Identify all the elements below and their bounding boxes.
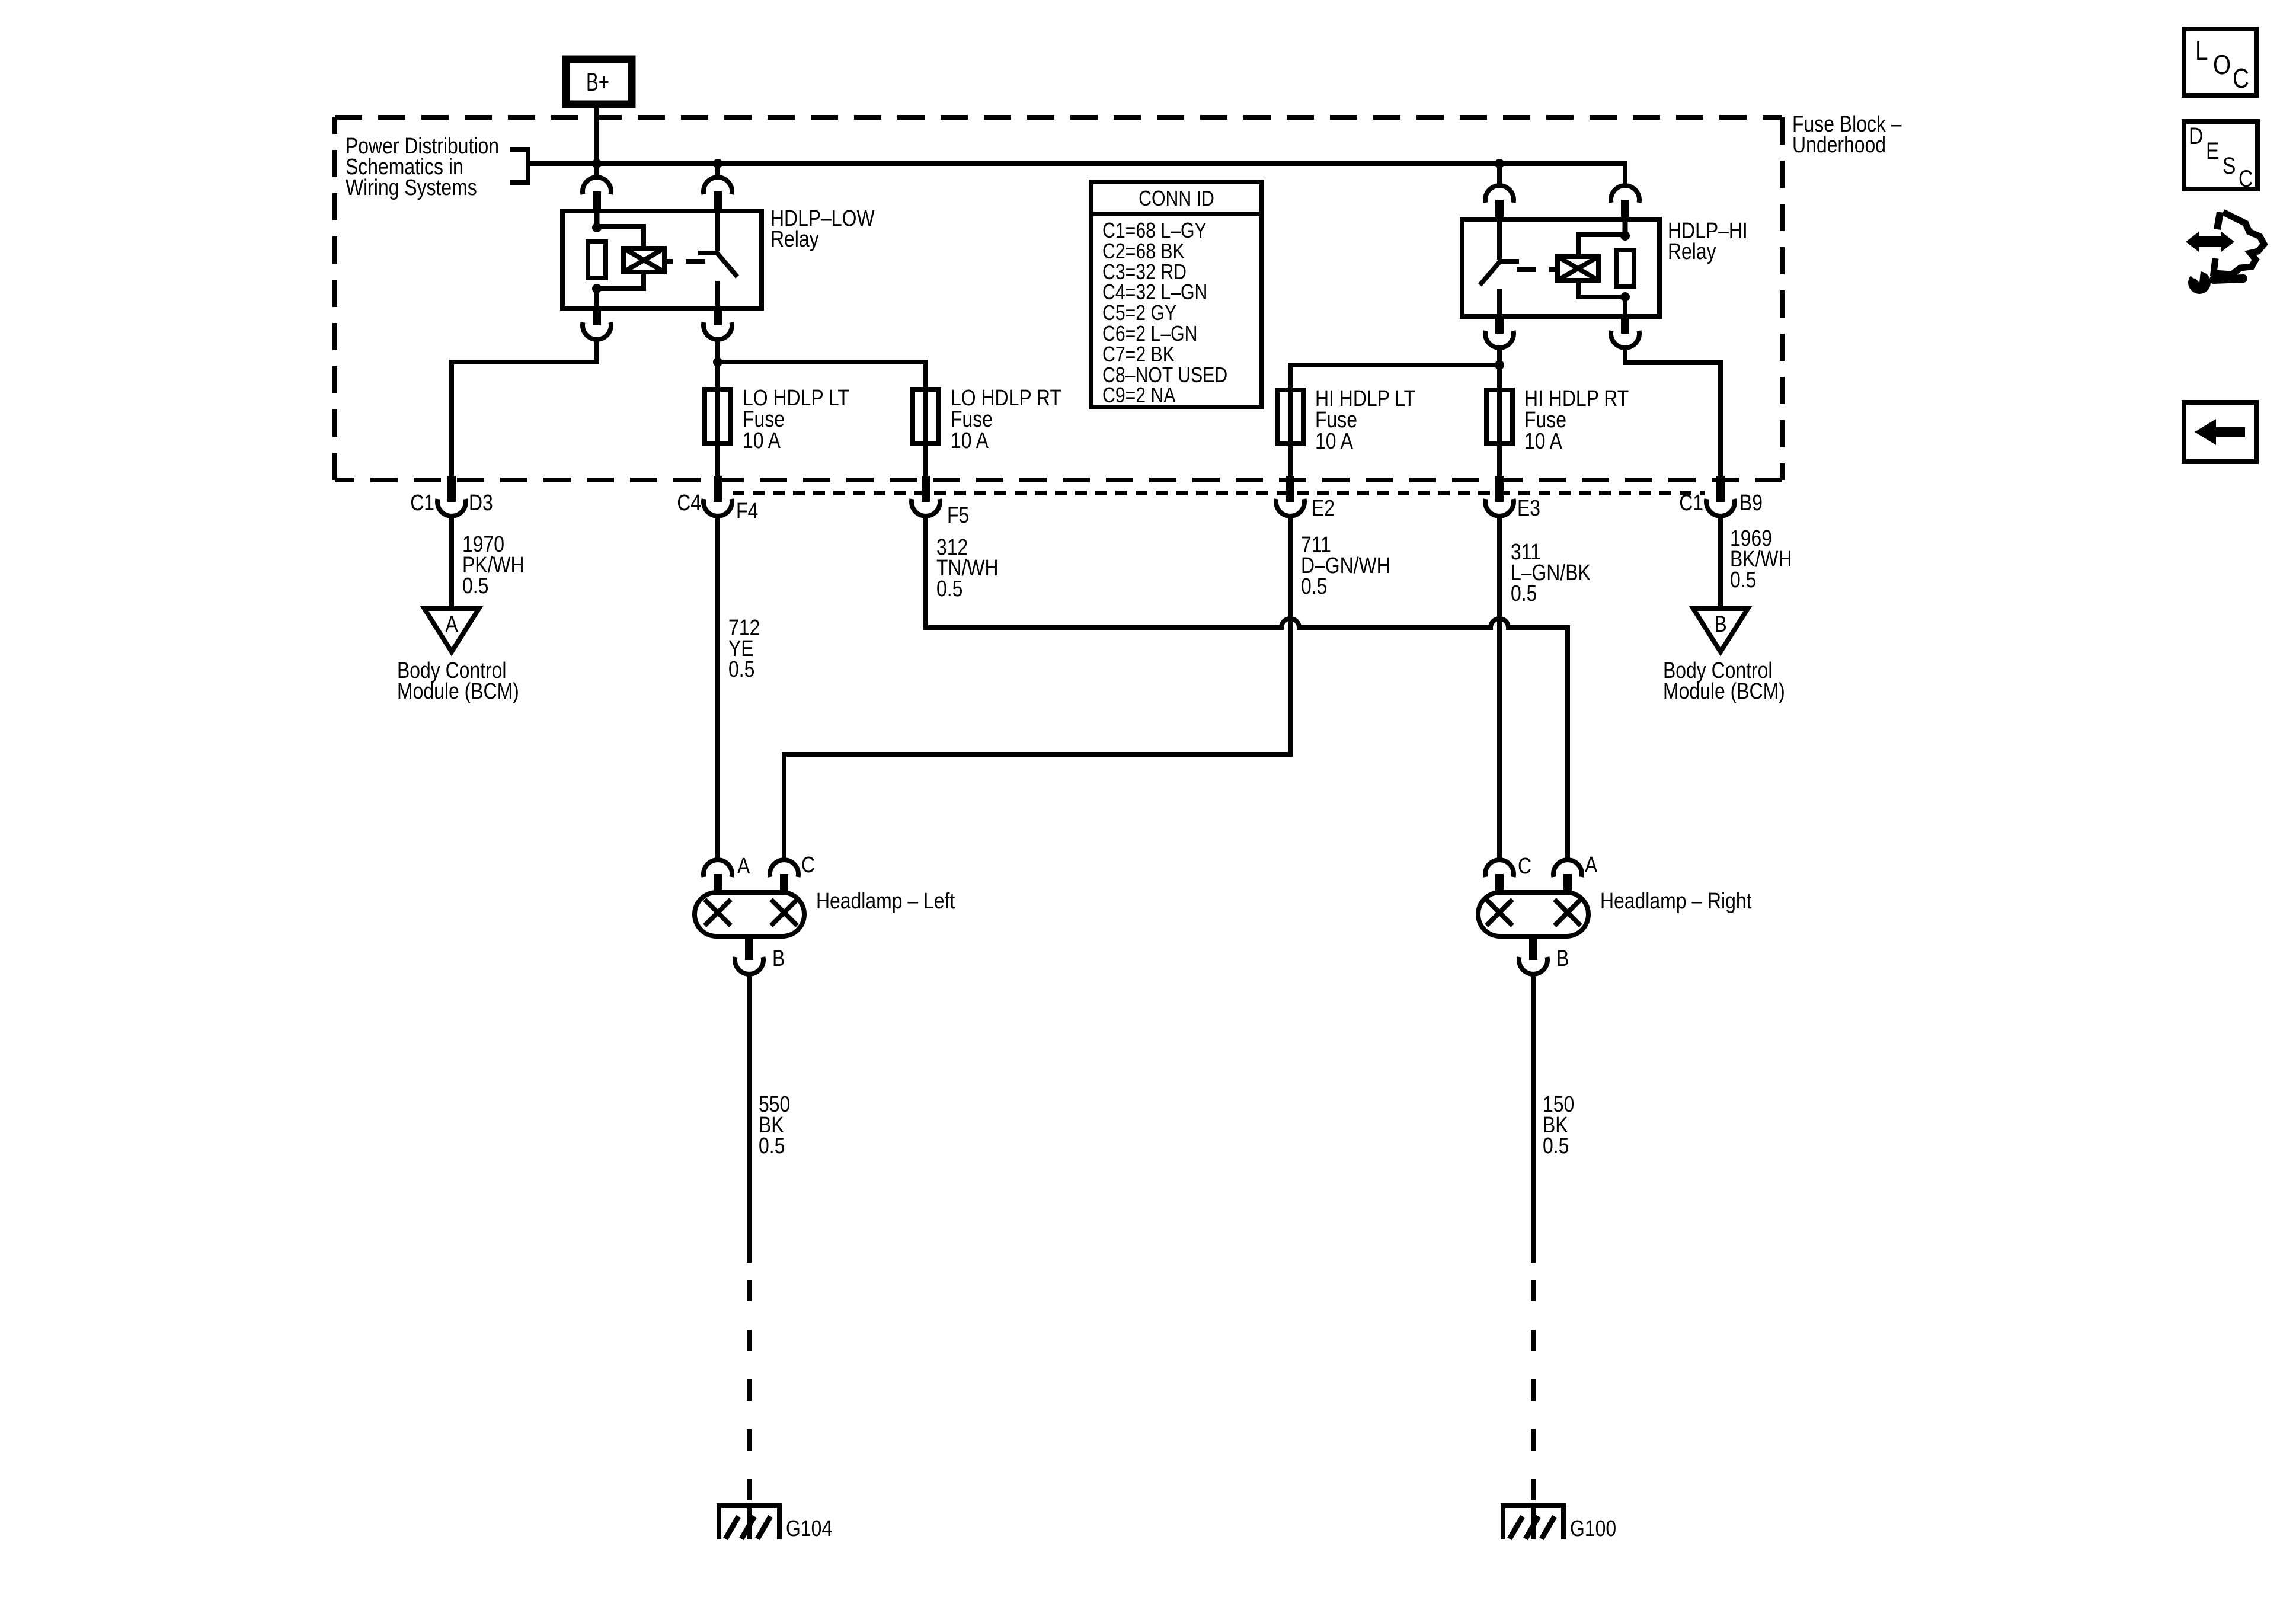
icon LOC box xyxy=(2184,29,2256,95)
terminal stub LO coil bottom xyxy=(593,308,601,325)
connector E3 xyxy=(1485,476,1540,521)
terminal stub LO switch bottom xyxy=(714,308,722,325)
svg-text:10 A: 10 A xyxy=(951,428,989,453)
wire LO RT fuse to F5 xyxy=(923,443,928,476)
B+ battery terminal box xyxy=(566,59,632,104)
wire B+ to bus xyxy=(594,104,599,164)
connector C1 B9 xyxy=(1679,476,1763,516)
node LO fuse junction xyxy=(713,357,722,367)
svg-text:E2: E2 xyxy=(1312,496,1335,521)
connector cup LO relay pin 86 top xyxy=(583,177,611,194)
right headlamp pin A connector xyxy=(1553,853,1598,895)
wire 712 YE F4 to left headlamp A xyxy=(715,516,720,860)
svg-text:Module (BCM): Module (BCM) xyxy=(1663,679,1785,704)
wire 550 BK solid xyxy=(747,974,752,1263)
wire HI RT fuse to E3 xyxy=(1497,444,1502,476)
connector cup LO relay pin 30 top xyxy=(703,177,732,194)
svg-text:0.5: 0.5 xyxy=(1301,574,1327,599)
connector cup HI relay pin 30 top xyxy=(1485,185,1514,203)
svg-text:Module (BCM): Module (BCM) xyxy=(397,679,519,704)
svg-text:10 A: 10 A xyxy=(1315,429,1353,454)
connector cup HI switch bottom xyxy=(1485,331,1514,348)
left headlamp high beam lamp xyxy=(771,900,797,926)
svg-text:Relay: Relay xyxy=(1668,239,1716,264)
power distribution bracket xyxy=(510,149,528,183)
relay HDLP-LOW box xyxy=(562,211,762,308)
wire 312 TN/WH F5 to right headlamp A xyxy=(926,516,1568,860)
connector E2 xyxy=(1276,476,1335,521)
connector F5 xyxy=(912,476,969,528)
svg-text:B: B xyxy=(1714,612,1726,637)
node HI coil top xyxy=(1620,231,1630,241)
wire junction to HI LT fuse xyxy=(1290,365,1499,390)
offpage triangle B xyxy=(1693,609,1748,652)
svg-text:C1: C1 xyxy=(410,491,434,516)
wire LO LT fuse to C4 F4 xyxy=(715,443,720,476)
ground G104 xyxy=(717,1503,782,1539)
svg-text:B+: B+ xyxy=(586,68,609,97)
svg-text:A: A xyxy=(445,612,458,637)
fuse LO HDLP RT xyxy=(913,389,939,443)
svg-text:L: L xyxy=(2195,35,2208,66)
svg-text:Headlamp – Left: Headlamp – Left xyxy=(816,889,955,914)
wire LO coil bottom to pin xyxy=(594,289,599,308)
wire bus corner to HDLP-HI coil xyxy=(1623,161,1627,186)
left headlamp pin C connector xyxy=(770,853,815,895)
svg-text:C1: C1 xyxy=(1679,491,1703,516)
svg-text:0.5: 0.5 xyxy=(1730,568,1756,593)
LO switch output contact xyxy=(715,281,720,308)
svg-text:Relay: Relay xyxy=(770,227,819,252)
HI coil pin inner stub xyxy=(1623,219,1628,236)
wire HI coil bottom to pin xyxy=(1623,297,1627,316)
node bus/LO switch xyxy=(713,159,722,168)
svg-text:0.5: 0.5 xyxy=(462,574,488,598)
fuse HI HDLP RT xyxy=(1486,390,1512,444)
svg-text:F4: F4 xyxy=(736,499,758,524)
connector cup HI coil bottom xyxy=(1611,331,1639,348)
wire bus to LO coil connector xyxy=(594,164,599,178)
icon schematic reference arrows and wrench xyxy=(2186,212,2264,294)
node HI coil bottom xyxy=(1620,292,1630,302)
LO actuator dash xyxy=(686,259,705,264)
connector cup LO switch bottom xyxy=(703,322,732,340)
svg-text:B: B xyxy=(1556,946,1569,971)
fuse block underhood dashed box xyxy=(335,117,1782,480)
svg-text:C: C xyxy=(801,853,815,878)
HI switch output contact xyxy=(1497,289,1502,316)
coil HI relay xyxy=(1558,257,1598,280)
wire 150 BK solid xyxy=(1531,974,1536,1263)
node LO coil bottom xyxy=(592,284,602,293)
svg-text:C: C xyxy=(1518,854,1531,879)
LO switch contact tick xyxy=(698,251,718,255)
wire LO coil to C1 D3 xyxy=(452,340,597,476)
HI actuator dash xyxy=(1517,267,1536,272)
left headlamp pin B connector xyxy=(735,936,785,974)
fuse LO HDLP LT xyxy=(705,389,731,443)
svg-text:A: A xyxy=(737,854,750,879)
wire 711 D-GN/WH E2 to left headlamp C xyxy=(784,516,1290,860)
terminal stub HI coil top xyxy=(1621,200,1629,222)
wire junction to LO RT fuse xyxy=(718,362,926,389)
left headlamp low beam lamp xyxy=(705,900,731,926)
connector boundary dashed line xyxy=(733,491,1705,495)
right headlamp low beam lamp xyxy=(1555,900,1581,926)
svg-text:G100: G100 xyxy=(1570,1516,1616,1541)
terminal stub HI switch bottom xyxy=(1495,316,1504,334)
HI switch common stub xyxy=(1497,219,1502,260)
terminal stub LO coil top xyxy=(593,191,601,213)
svg-text:0.5: 0.5 xyxy=(759,1134,785,1158)
LO switch common stub xyxy=(715,211,720,251)
coil LO relay xyxy=(623,248,664,272)
svg-text:Wiring Systems: Wiring Systems xyxy=(346,175,477,200)
wire 150 BK dashed xyxy=(1531,1280,1536,1503)
wire HI coil top loop xyxy=(1578,235,1625,257)
icon back arrow box xyxy=(2184,402,2256,462)
terminal stub LO switch top xyxy=(714,191,722,213)
svg-text:0.5: 0.5 xyxy=(1543,1134,1569,1158)
ground G100 xyxy=(1501,1503,1566,1539)
offpage triangle A xyxy=(424,609,479,652)
svg-text:10 A: 10 A xyxy=(1524,429,1562,454)
svg-text:0.5: 0.5 xyxy=(728,657,754,682)
wire LO coil top loop xyxy=(597,226,644,248)
svg-text:D3: D3 xyxy=(469,491,493,516)
wire 1969 to BCM B xyxy=(1718,516,1723,609)
LO switch blade xyxy=(717,252,737,277)
wire junction to LO LT fuse xyxy=(715,362,720,389)
svg-text:C: C xyxy=(2239,166,2253,192)
node bus/HI switch xyxy=(1495,159,1504,168)
connector C1 D3 xyxy=(410,476,493,516)
LO coil actuate stub xyxy=(664,259,673,264)
svg-text:F5: F5 xyxy=(947,503,969,528)
wire HI coil to C1 B9 xyxy=(1625,348,1721,476)
wire 550 BK dashed xyxy=(747,1280,752,1503)
connector cup LO coil bottom xyxy=(583,322,611,340)
node bus/B+ xyxy=(592,159,602,168)
wire HI LT fuse to E2 xyxy=(1288,444,1293,476)
svg-text:B9: B9 xyxy=(1739,491,1763,516)
fuse HI HDLP LT xyxy=(1277,390,1303,444)
svg-text:B: B xyxy=(772,946,785,971)
svg-text:Underhood: Underhood xyxy=(1792,133,1886,158)
HI switch contact tick xyxy=(1499,259,1519,264)
left headlamp pin A connector xyxy=(703,854,750,895)
HI switch blade xyxy=(1480,261,1501,285)
svg-text:10 A: 10 A xyxy=(743,428,781,453)
relay HDLP-HI box xyxy=(1462,219,1659,316)
wire bus to HI switch connector xyxy=(1497,164,1502,186)
wire junction to HI RT fuse xyxy=(1497,365,1502,390)
right headlamp high beam lamp xyxy=(1486,900,1512,926)
svg-text:O: O xyxy=(2213,49,2231,80)
svg-text:D: D xyxy=(2189,123,2203,149)
wire HI switch down xyxy=(1497,348,1502,365)
wire 311 L-GN/BK E3 to right headlamp C xyxy=(1497,516,1502,860)
wire HI coil bottom loop xyxy=(1578,280,1625,297)
icon DESC box xyxy=(2184,121,2257,192)
svg-text:G104: G104 xyxy=(786,1516,832,1541)
resistor LO relay xyxy=(588,242,606,278)
connector cup HI relay pin 86 top xyxy=(1611,185,1639,203)
svg-text:Headlamp – Right: Headlamp – Right xyxy=(1600,889,1752,914)
svg-text:S: S xyxy=(2223,153,2236,179)
node HI fuse junction xyxy=(1495,360,1504,370)
terminal stub HI switch top xyxy=(1495,200,1504,222)
svg-text:E: E xyxy=(2206,138,2219,164)
wire 1970 to BCM A xyxy=(449,516,454,609)
HI coil actuate stub xyxy=(1549,267,1558,272)
svg-text:C9=2 NA: C9=2 NA xyxy=(1102,383,1176,407)
left headlamp body xyxy=(695,892,804,936)
bus wire B+ feed xyxy=(528,161,1625,166)
svg-text:0.5: 0.5 xyxy=(936,577,962,601)
terminal stub HI coil bottom xyxy=(1621,316,1629,334)
connector C4 F4 xyxy=(677,476,758,524)
svg-text:A: A xyxy=(1585,853,1598,878)
svg-text:C4: C4 xyxy=(677,491,701,516)
right headlamp pin C connector xyxy=(1485,854,1531,895)
svg-text:C: C xyxy=(2233,63,2249,94)
svg-text:E3: E3 xyxy=(1517,496,1540,521)
svg-text:0.5: 0.5 xyxy=(1511,581,1537,606)
wire LO coil bottom loop xyxy=(597,272,644,289)
node LO coil top xyxy=(592,223,602,232)
wire bus to LO switch connector xyxy=(715,164,720,178)
resistor HI relay xyxy=(1616,250,1634,286)
wire LO switch down xyxy=(715,340,720,362)
right headlamp pin B connector xyxy=(1519,936,1569,974)
LO coil pin inner stub xyxy=(594,211,600,228)
CONN ID table xyxy=(1091,182,1262,407)
svg-text:CONN ID: CONN ID xyxy=(1139,186,1214,210)
right headlamp body xyxy=(1478,892,1588,936)
